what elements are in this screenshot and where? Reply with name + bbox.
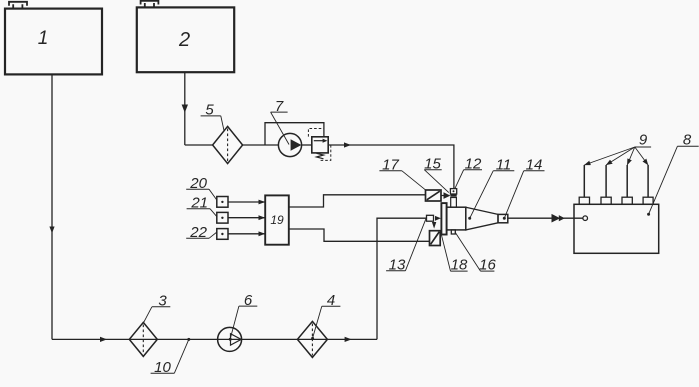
tank 2 — [137, 7, 234, 72]
inlet valve 13 — [427, 215, 434, 221]
nozzle bottom tab 16 — [451, 230, 455, 234]
sensor 21 — [217, 212, 228, 223]
svg-text:2: 2 — [178, 29, 190, 51]
plug socket 4 — [643, 197, 653, 204]
relief valve — [312, 137, 328, 153]
plug socket 3 — [622, 197, 632, 204]
leader 9 to electrode 4 — [635, 147, 648, 165]
svg-text:8: 8 — [683, 131, 692, 148]
nozzle tip 14 — [498, 214, 508, 222]
drain valve 18 — [430, 231, 441, 246]
svg-text:19: 19 — [270, 213, 284, 227]
drain arrow down — [432, 222, 436, 229]
pump P7 — [278, 133, 301, 156]
plug socket 2 — [601, 197, 611, 204]
wire pump7 to relief valve — [302, 144, 312, 146]
wire tank2 outlet down — [184, 72, 186, 145]
flame jet line to burner — [508, 217, 583, 219]
nozzle cone — [466, 207, 498, 230]
filter F5 — [213, 126, 243, 163]
flow arrow down below tank 2 — [182, 105, 188, 113]
svg-text:9: 9 — [639, 132, 648, 149]
flow arrow right before filter 3 — [100, 337, 107, 342]
leader 9 to electrode 2 — [606, 147, 635, 165]
wire bottom run up to nozzle inlet — [377, 218, 427, 339]
leader 9 to electrode 3 — [627, 147, 635, 165]
wire to filter 5 — [185, 144, 213, 146]
jet end circle — [583, 216, 588, 221]
plug socket 1 — [579, 197, 589, 204]
wire sensor22 to control unit — [228, 233, 265, 235]
nozzle flange — [441, 203, 446, 234]
relief valve pilot dashed lines — [308, 129, 323, 137]
wire bottom run — [52, 338, 377, 340]
flame double arrow — [552, 214, 561, 223]
flow arrow down on left pipe — [49, 227, 54, 234]
relief valve spring — [317, 153, 324, 159]
electrode 2 — [605, 165, 607, 197]
tank 1 filler cap — [9, 2, 27, 9]
valve 17 — [426, 190, 442, 201]
wire filter5 to pump7 — [243, 144, 279, 146]
nozzle body 11 — [447, 207, 466, 230]
sensor 20 — [217, 197, 228, 208]
wire control unit upper output to valve 17 — [289, 195, 426, 207]
svg-text:1: 1 — [38, 28, 49, 49]
leader 9 to electrode 1 — [584, 147, 635, 165]
electrode 3 — [626, 165, 628, 197]
flow arrow right after filter 4 — [345, 337, 352, 342]
electrode 1 — [583, 165, 585, 197]
bypass wire over pump to relief valve — [265, 123, 324, 145]
wire sensor21 to control unit — [228, 217, 265, 219]
wire sensor20 to control unit — [228, 201, 265, 203]
wire tank1 outlet down — [51, 74, 53, 339]
sensor 22 — [217, 229, 228, 240]
wire control unit lower output to valve 18 — [289, 229, 430, 241]
tank 1 — [5, 9, 102, 75]
pump P6 — [218, 327, 242, 351]
flow arrow right after relief valve — [344, 142, 351, 147]
nozzle top pipe — [451, 198, 457, 208]
nozzle feed arrow 15 — [441, 195, 444, 197]
electrode 4 — [647, 165, 649, 197]
tank 2 filler cap — [141, 1, 159, 8]
wire relief valve to nozzle top, down to valve 12 — [328, 145, 454, 189]
control unit 19 — [265, 195, 289, 244]
inlet feed arrow — [435, 216, 441, 221]
filter F3 — [129, 322, 157, 356]
filter F4 — [297, 321, 327, 357]
burner box 8 — [574, 204, 659, 253]
solenoid valve 12 — [450, 189, 456, 194]
